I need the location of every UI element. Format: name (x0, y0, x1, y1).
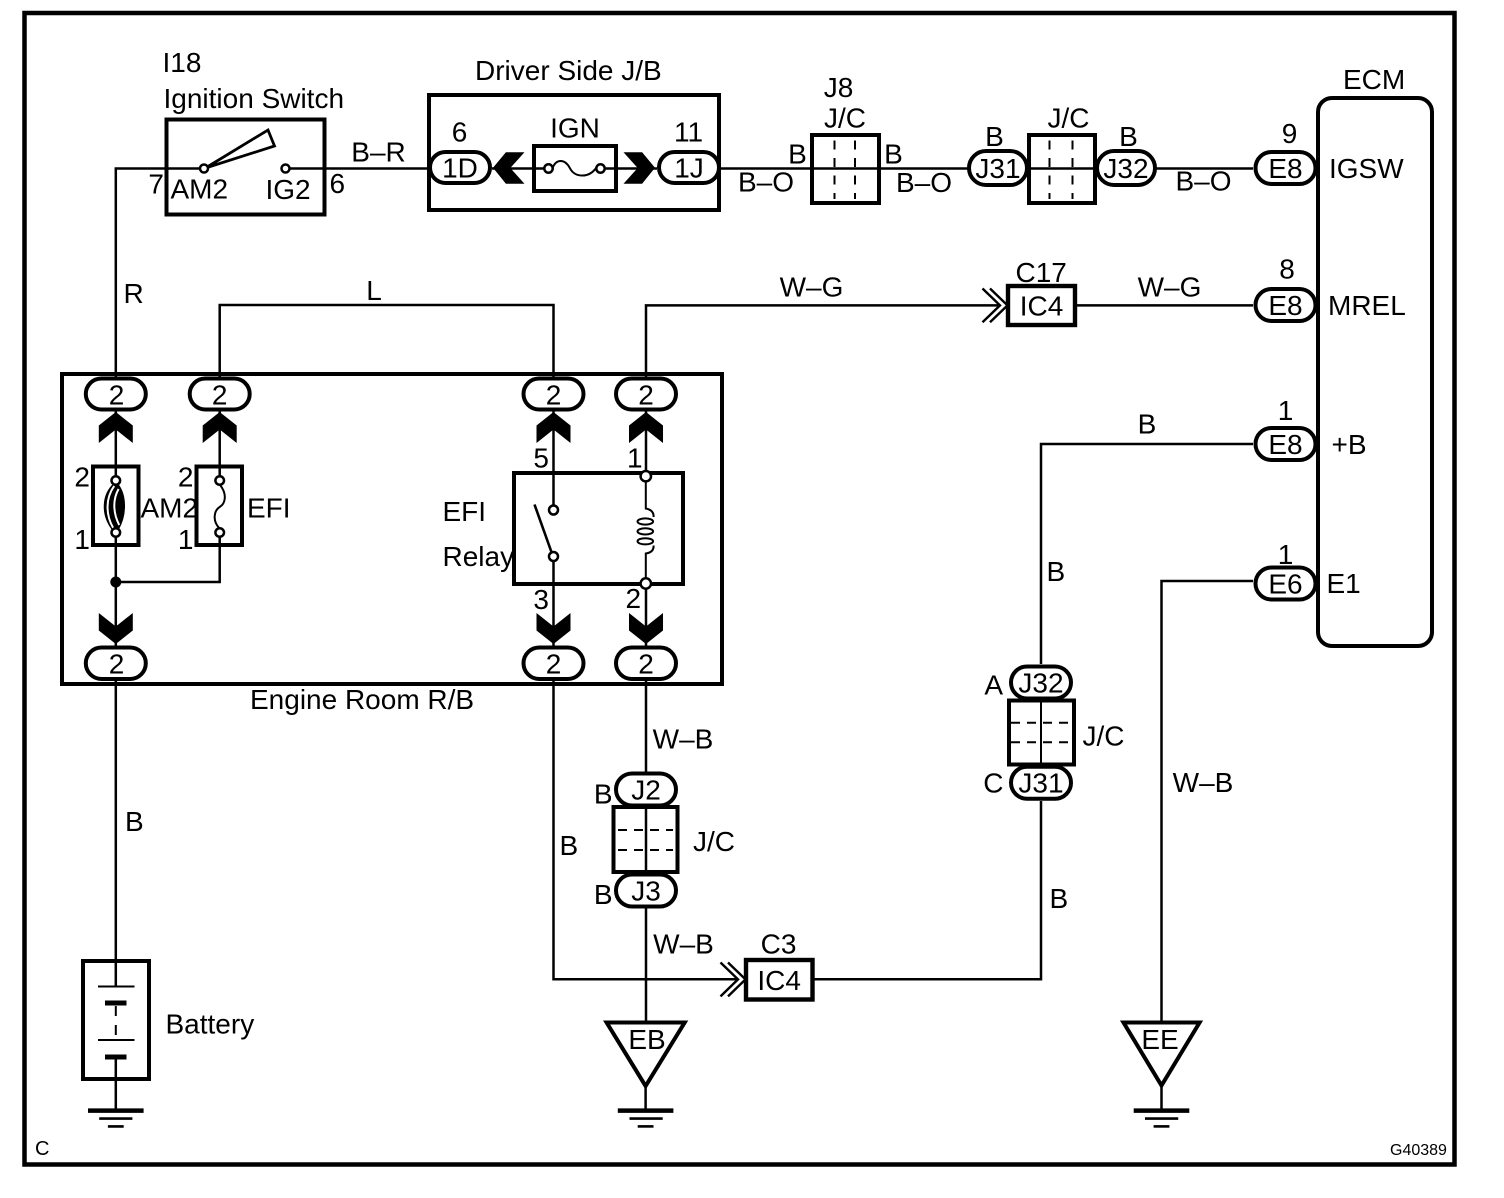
svg-text:AM2: AM2 (171, 174, 229, 205)
wire label B-O (738, 167, 794, 198)
svg-text:B: B (1050, 883, 1069, 914)
svg-text:IG2: IG2 (266, 174, 311, 205)
ignition switch I18 (163, 47, 345, 215)
svg-text:J/C: J/C (1048, 103, 1090, 134)
relay pin 5 (533, 443, 549, 474)
ground EE (1124, 1023, 1200, 1127)
svg-text:B–O: B–O (1175, 166, 1231, 197)
svg-text:B: B (594, 879, 613, 910)
svg-text:B: B (1047, 556, 1066, 587)
svg-text:Relay: Relay (443, 541, 515, 572)
connector E6 pin 1 E1 (1256, 539, 1361, 600)
svg-text:AM2: AM2 (141, 493, 199, 524)
svg-text:2: 2 (638, 649, 654, 680)
svg-text:6: 6 (330, 168, 346, 199)
svg-text:Engine Room R/B: Engine Room R/B (250, 684, 474, 715)
wire label R (124, 278, 144, 309)
wire label B (1047, 556, 1066, 587)
svg-text:B: B (788, 139, 807, 170)
relay coil pin 1 (627, 443, 651, 482)
wire: oval to EFI fuse (218, 411, 221, 481)
junction block Driver Side J/B (429, 55, 719, 210)
wire label W-G (1138, 272, 1202, 303)
wire label B (560, 830, 579, 861)
relay block Engine Room R/B (62, 374, 722, 715)
connector J2 (616, 774, 676, 806)
connector J3 (616, 875, 676, 907)
svg-text:B: B (1138, 409, 1157, 440)
svg-text:1: 1 (1278, 539, 1294, 570)
arrow marker C17 (983, 289, 1008, 323)
wire label W-B (1173, 767, 1234, 798)
svg-text:EE: EE (1141, 1024, 1178, 1055)
svg-text:9: 9 (1282, 118, 1298, 149)
wire: E8 +B to J32 (B) (1041, 444, 1253, 664)
connector J32 pin A (984, 667, 1071, 701)
svg-text:E1: E1 (1327, 568, 1361, 599)
junction connector J8 J/C (812, 72, 879, 203)
svg-text:3: 3 (533, 584, 549, 615)
arrow down (537, 613, 571, 644)
ignition switch pin 6 (330, 168, 346, 199)
svg-text:Driver Side J/B: Driver Side J/B (475, 55, 662, 86)
wire: relay coil pin 2 down (645, 589, 648, 646)
svg-text:IC4: IC4 (1020, 290, 1064, 321)
wire: E6 E1 to EE ground (W-B) (1162, 581, 1254, 1023)
svg-text:G40389: G40389 (1390, 1142, 1447, 1159)
wire: IG2 to 1D (B-R) (286, 167, 429, 170)
svg-text:Ignition Switch: Ignition Switch (164, 83, 345, 114)
arrow up (99, 412, 133, 443)
wire: 1J to E8 IGSW (B-O) (721, 167, 1253, 170)
ignition switch contact AM2 (171, 165, 229, 205)
svg-text:C3: C3 (761, 929, 797, 960)
ignition switch pin 7 (148, 169, 164, 200)
connector 2 (top, EFI fuse) (190, 379, 250, 411)
svg-text:W–B: W–B (1173, 767, 1234, 798)
connector 2 (top, relay 1) (616, 379, 676, 411)
wire: oval to relay coil pin 1 (645, 411, 648, 471)
svg-text:8: 8 (1279, 254, 1295, 285)
wire: AM2 fuse to junction (115, 537, 118, 646)
fuse EFI pin 2 (178, 462, 194, 493)
svg-text:L: L (366, 275, 382, 306)
svg-text:ECM: ECM (1343, 64, 1405, 95)
svg-text:EFI: EFI (247, 493, 291, 524)
connector E8 pin 8 MREL (1256, 254, 1406, 322)
svg-text:J/C: J/C (1083, 721, 1125, 752)
wire: EB triangle to ground (644, 1086, 647, 1111)
svg-text:E8: E8 (1268, 429, 1302, 460)
wire label B (1138, 409, 1157, 440)
svg-text:B: B (125, 806, 144, 837)
fuse AM2 pin 2 (74, 462, 90, 493)
svg-text:1: 1 (74, 524, 90, 555)
svg-text:B: B (594, 779, 613, 810)
svg-text:W–B: W–B (653, 724, 714, 755)
relay switch contacts (535, 505, 559, 562)
svg-text:B–O: B–O (896, 167, 952, 198)
ground EB (607, 1023, 685, 1127)
svg-text:A: A (984, 670, 1003, 701)
svg-text:B: B (560, 830, 579, 861)
wire label W-G (780, 272, 844, 303)
arrow up (203, 412, 237, 443)
svg-text:W–G: W–G (780, 272, 844, 303)
svg-text:EFI: EFI (443, 496, 487, 527)
wire: C3 to J31 (B) (813, 801, 1042, 979)
wire: oval to AM2 fuse (115, 411, 118, 481)
svg-text:C: C (35, 1138, 49, 1160)
svg-text:2: 2 (178, 462, 194, 493)
arrow down (99, 613, 133, 644)
relay coil pin 2 (626, 578, 652, 614)
connector J31 (969, 151, 1027, 185)
svg-text:2: 2 (74, 462, 90, 493)
wire label L (366, 275, 382, 306)
connector J32 (1097, 151, 1155, 185)
svg-text:J32: J32 (1103, 153, 1148, 184)
connector E8 pin 9 IGSW (1256, 118, 1405, 184)
wire label B (125, 806, 144, 837)
svg-text:1J: 1J (674, 153, 704, 184)
svg-text:1D: 1D (442, 153, 478, 184)
svg-text:J8: J8 (824, 72, 854, 103)
connector 1D pin 6 (430, 117, 490, 184)
svg-text:IC4: IC4 (757, 965, 801, 996)
wire label B (788, 139, 807, 170)
svg-text:2: 2 (212, 380, 228, 411)
svg-text:E8: E8 (1268, 153, 1302, 184)
page letter C (35, 1138, 49, 1160)
ground (battery) (88, 1111, 144, 1127)
wire: engine room to EB ground (W-B) (645, 681, 648, 1023)
wire label B (884, 139, 903, 170)
svg-text:B–O: B–O (738, 167, 794, 198)
svg-text:I18: I18 (163, 47, 202, 78)
wire label B-O (896, 167, 952, 198)
junction connector J/C (center) (614, 807, 736, 872)
arrow down (629, 613, 663, 644)
svg-text:2: 2 (638, 380, 654, 411)
wire: engine room to C3 (B) (554, 681, 738, 979)
wire label B (985, 121, 1004, 152)
connector C3 IC4 (746, 929, 813, 1000)
wire: 1D to IGN fuse (492, 167, 549, 170)
svg-text:2: 2 (109, 649, 125, 680)
relay EFI Relay (443, 473, 684, 584)
svg-text:J/C: J/C (693, 826, 735, 857)
arrow marker C3 (721, 963, 746, 997)
J3 pin B (594, 879, 613, 910)
svg-text:MREL: MREL (1328, 290, 1406, 321)
wire: EE triangle to ground (1160, 1086, 1163, 1111)
arrow into 1D (493, 152, 525, 184)
connector J31 pin C (983, 767, 1071, 799)
connector 2 (bottom, relay 3) (524, 648, 584, 680)
svg-text:R: R (124, 278, 144, 309)
svg-text:J31: J31 (1018, 768, 1063, 799)
svg-text:B: B (1119, 121, 1138, 152)
wire label W-B (653, 724, 714, 755)
svg-text:2: 2 (546, 380, 562, 411)
svg-text:IGN: IGN (550, 113, 600, 144)
svg-text:C: C (983, 768, 1003, 799)
svg-text:J32: J32 (1018, 668, 1063, 699)
figure number G40389 (1390, 1142, 1447, 1159)
svg-text:B–R: B–R (351, 137, 405, 168)
fuse IGN (534, 113, 616, 192)
wire: L (220, 305, 554, 377)
fuse AM2 (93, 467, 198, 546)
connector C17 IC4 (1008, 257, 1075, 325)
svg-text:B: B (985, 121, 1004, 152)
svg-text:7: 7 (148, 169, 164, 200)
svg-text:E8: E8 (1268, 290, 1302, 321)
arrow up (629, 412, 663, 443)
wire: AM2 to engine room (R) (116, 169, 205, 378)
connector 2 (bottom, battery) (86, 648, 146, 680)
svg-text:1: 1 (178, 524, 194, 555)
wire: MREL W-G from relay oval to C17 (646, 305, 998, 377)
svg-text:1: 1 (1278, 395, 1294, 426)
J2 pin B (594, 779, 613, 810)
svg-text:E6: E6 (1268, 569, 1302, 600)
svg-text:5: 5 (533, 443, 549, 474)
wire: IGN fuse to 1J (600, 167, 657, 170)
relay coil (638, 481, 654, 579)
ECM (1318, 64, 1432, 646)
battery (83, 961, 254, 1079)
svg-text:EB: EB (628, 1024, 665, 1055)
wire: battery to ground (115, 1057, 118, 1111)
junction connector J/C (top) (1029, 103, 1095, 204)
wire: oval to relay contact 5 (552, 411, 555, 506)
connector 1J pin 11 (659, 117, 719, 184)
svg-text:B: B (884, 139, 903, 170)
svg-text:W–B: W–B (653, 929, 714, 960)
fuse EFI pin 1 (178, 524, 194, 555)
svg-text:6: 6 (452, 117, 468, 148)
wire label B-R (351, 137, 405, 168)
junction connector J/C (right) (1009, 701, 1125, 765)
svg-text:2: 2 (546, 649, 562, 680)
svg-text:2: 2 (109, 380, 125, 411)
wire label W-B (653, 929, 714, 960)
fuse EFI (197, 467, 291, 546)
svg-text:IGSW: IGSW (1329, 153, 1404, 184)
relay pin 3 (533, 584, 549, 615)
ignition switch contact IG2 (266, 165, 311, 206)
svg-text:J/C: J/C (824, 103, 866, 134)
fuse AM2 pin 1 (74, 524, 90, 555)
svg-text:2: 2 (626, 583, 642, 614)
svg-text:Battery: Battery (166, 1009, 255, 1040)
wire: relay contact 3 down (552, 561, 555, 646)
svg-text:J31: J31 (975, 153, 1020, 184)
wire: EFI fuse to junction (116, 537, 220, 582)
svg-text:C17: C17 (1016, 257, 1067, 288)
arrow out of IGN fuse (624, 152, 656, 184)
arrow up (537, 412, 571, 443)
connector 2 (bottom, relay 2) (616, 648, 676, 680)
wire: C17 to E8 MREL (W-G) (1075, 304, 1253, 307)
svg-text:+B: +B (1332, 429, 1367, 460)
svg-text:1: 1 (627, 443, 643, 474)
wire label B-O (1175, 166, 1231, 197)
svg-text:J2: J2 (631, 775, 661, 806)
svg-text:W–G: W–G (1138, 272, 1202, 303)
svg-text:11: 11 (674, 117, 703, 148)
connector 2 (top, AM2 fuse) (86, 379, 146, 411)
junction dot (110, 577, 121, 588)
wire: engine room to battery (B) (115, 681, 118, 987)
connector 2 (top, relay 5) (524, 379, 584, 411)
wire label B (1050, 883, 1069, 914)
wire label B (1119, 121, 1138, 152)
connector E8 pin 1 +B (1256, 395, 1367, 460)
svg-text:J3: J3 (631, 876, 661, 907)
